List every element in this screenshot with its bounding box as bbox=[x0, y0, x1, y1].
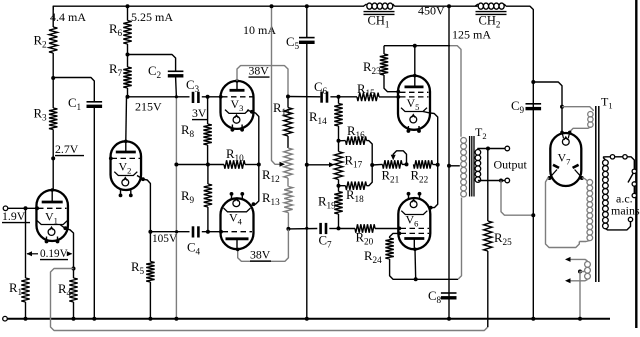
capacitor C4 bbox=[193, 226, 198, 237]
resistor R25 bbox=[484, 149, 492, 328]
node 105V bbox=[148, 230, 152, 234]
label R16 bbox=[347, 124, 365, 140]
svg-text:215V: 215V bbox=[135, 100, 162, 114]
svg-text:0.19V: 0.19V bbox=[40, 248, 68, 260]
wire V7 left anode bbox=[546, 178, 580, 248]
wire cathode link V5-V6 bbox=[429, 165, 438, 210]
wire 450V down bbox=[448, 6, 450, 319]
wire V6 anode line bbox=[415, 198, 462, 280]
wire B+ to V7 bbox=[533, 82, 562, 132]
label V1 bbox=[45, 210, 58, 226]
resistor R6 bbox=[123, 4, 131, 54]
resistor R23 bbox=[380, 46, 399, 92]
wire C2 ground line bbox=[175, 97, 177, 319]
label mains bbox=[611, 204, 640, 218]
tube V3 bbox=[221, 79, 254, 132]
potentiometer R17 bbox=[334, 141, 342, 186]
wire 105V line bbox=[150, 230, 189, 233]
wire R21-R22 line bbox=[372, 163, 382, 166]
label R17 bbox=[345, 154, 363, 170]
svg-text:38V: 38V bbox=[250, 248, 271, 262]
label V2 bbox=[119, 160, 132, 176]
label 450V bbox=[418, 4, 445, 18]
wire 5V winding top bbox=[562, 107, 593, 111]
output terminal top bbox=[505, 146, 510, 151]
node R5 ground bbox=[148, 317, 152, 321]
node V6 anode junction bbox=[414, 277, 418, 281]
label R20 bbox=[356, 231, 374, 247]
label 105V bbox=[152, 233, 178, 245]
capacitor C2 bbox=[128, 55, 184, 97]
resistor R20 bbox=[339, 224, 400, 232]
wire V5 cathode bbox=[423, 112, 438, 165]
node 5V tap bbox=[560, 105, 564, 109]
node 450V rail bbox=[447, 4, 451, 8]
right border bbox=[635, 0, 637, 328]
input terminal bbox=[3, 206, 8, 211]
wire V3 anode 38V bbox=[237, 66, 288, 97]
wire 215V line bbox=[128, 96, 190, 98]
wire V2 anode stem bbox=[125, 97, 128, 142]
wiper R12 bbox=[272, 6, 286, 167]
label V3 bbox=[231, 97, 244, 113]
wire mains top bbox=[604, 157, 611, 160]
label R12 bbox=[262, 168, 280, 184]
label C5 bbox=[286, 35, 300, 51]
label C9 bbox=[511, 99, 525, 115]
capacitor C5 bbox=[299, 4, 315, 319]
label R23 bbox=[363, 60, 381, 76]
wire C3 to V3 grid bbox=[202, 95, 223, 99]
capacitor C7 bbox=[288, 223, 338, 234]
node wiper R12 rail bbox=[270, 4, 274, 8]
label R3 bbox=[34, 107, 48, 123]
resistor R14 bbox=[334, 97, 342, 141]
svg-text:mains: mains bbox=[611, 204, 640, 218]
label Output bbox=[494, 158, 528, 172]
node C5 ground bbox=[305, 317, 309, 321]
label 5.25 mA bbox=[131, 10, 173, 24]
resistor R8 bbox=[203, 97, 211, 165]
label R25 bbox=[494, 231, 512, 247]
label R15 bbox=[357, 82, 375, 98]
label 4.4 mA bbox=[50, 10, 86, 24]
resistor R18 bbox=[339, 165, 373, 190]
label C1 bbox=[68, 96, 82, 112]
wire V5 anode line bbox=[384, 46, 461, 137]
node V5 anode tap bbox=[413, 44, 417, 48]
transformer T2 secondary bbox=[475, 149, 505, 183]
svg-text:3V: 3V bbox=[192, 106, 207, 120]
label R2 bbox=[34, 34, 48, 50]
tube V2 bbox=[109, 140, 141, 198]
resistor R7 bbox=[123, 55, 131, 97]
resistor R13 bbox=[284, 187, 292, 229]
wire ground rail bbox=[8, 318, 611, 320]
node V7 branch bbox=[531, 80, 535, 84]
node C9 ground bbox=[531, 317, 535, 321]
label V5 bbox=[407, 96, 420, 112]
node R10 right bbox=[257, 163, 261, 167]
resistor R2 bbox=[49, 6, 57, 78]
capacitor C3 bbox=[193, 92, 198, 103]
node R2-R3 junction bbox=[51, 76, 55, 80]
wire cathode link V3-V4 bbox=[247, 110, 259, 206]
node R17-R18 junction bbox=[337, 184, 341, 188]
node C8 ground bbox=[447, 317, 451, 321]
ground terminal bbox=[3, 316, 8, 321]
label R5 bbox=[131, 260, 145, 276]
wire V5 anode stem bbox=[413, 46, 417, 87]
label a.c. bbox=[616, 192, 633, 206]
svg-text:125 mA: 125 mA bbox=[452, 28, 491, 42]
wire C9 line bbox=[532, 14, 534, 319]
label CH1 bbox=[368, 14, 390, 30]
wire V2 cathode bbox=[137, 176, 150, 232]
label C2 bbox=[148, 64, 162, 80]
wire switch link bbox=[615, 156, 623, 158]
node T2 centre tap bbox=[447, 164, 460, 168]
wire feedback loop bbox=[51, 269, 488, 331]
svg-text:38V: 38V bbox=[249, 64, 270, 78]
resistor R10 bbox=[224, 160, 259, 168]
resistor R11 bbox=[284, 97, 292, 149]
mains terminal bottom bbox=[628, 217, 632, 221]
label 215V bbox=[135, 100, 162, 114]
label T1 bbox=[601, 95, 613, 111]
node C2 line ground bbox=[174, 317, 178, 321]
resistor R24 bbox=[385, 233, 415, 279]
choke CH2 bbox=[475, 3, 507, 14]
switch contact 1 bbox=[610, 155, 614, 159]
wire heater centre tap bbox=[578, 270, 585, 319]
label R19 bbox=[318, 195, 336, 211]
switch lever bbox=[628, 174, 633, 183]
label C6 bbox=[314, 80, 328, 96]
label R13 bbox=[262, 191, 280, 207]
label R6 bbox=[109, 22, 123, 38]
wire heater bottom tap bbox=[565, 278, 588, 283]
potentiometer R12 bbox=[284, 148, 292, 187]
tube V1 bbox=[35, 188, 68, 243]
node R16-R18 node bbox=[370, 163, 374, 167]
label R24 bbox=[364, 249, 382, 265]
label 3V bbox=[192, 106, 208, 120]
tube V4 bbox=[221, 192, 254, 251]
label 10 mA bbox=[243, 23, 276, 37]
resistor R15 bbox=[330, 93, 398, 101]
label R14 bbox=[309, 110, 327, 126]
wire input to grid bbox=[8, 207, 37, 209]
wire fuse link bbox=[633, 186, 635, 193]
node 2.7V bbox=[51, 156, 55, 160]
label R7 bbox=[109, 62, 123, 78]
tube V7 bbox=[548, 131, 584, 186]
tube V6 bbox=[397, 192, 430, 251]
node C6-R14 junction bbox=[337, 95, 341, 99]
node R21-R22 junction bbox=[405, 162, 409, 166]
wire top B+ rail bbox=[53, 6, 533, 14]
wire R11 feed bbox=[288, 96, 320, 98]
node R8-R9 junction bbox=[206, 163, 210, 167]
node heater tap ground bbox=[578, 317, 582, 321]
node R10 left bbox=[174, 163, 178, 167]
wire switch to fuse bbox=[627, 157, 634, 169]
wire C4 to V4 grid bbox=[202, 230, 223, 234]
wiper R17 bbox=[307, 162, 335, 167]
transformer T1 heater winding bbox=[585, 262, 591, 280]
label R9 bbox=[181, 189, 195, 205]
transformer T1 HV winding bbox=[579, 179, 592, 241]
resistor R16 bbox=[339, 136, 373, 165]
wire V1 anode bbox=[52, 158, 54, 190]
label C4 bbox=[187, 241, 201, 257]
node C5 wiper tap bbox=[305, 163, 309, 167]
transformer T1 mains winding bbox=[603, 160, 609, 229]
node R11 top bbox=[286, 95, 290, 99]
svg-text:1.9V: 1.9V bbox=[2, 209, 26, 223]
node output ground tap bbox=[499, 179, 503, 183]
capacitor C9 bbox=[526, 104, 542, 109]
node C2-215V crossing bbox=[175, 95, 178, 98]
resistor R5 bbox=[146, 232, 154, 319]
node output feedback tap bbox=[486, 147, 490, 151]
label 125 mA bbox=[452, 28, 491, 42]
switch contact 2 bbox=[623, 155, 627, 159]
svg-text:2.7V: 2.7V bbox=[55, 142, 79, 156]
wire output ground bbox=[501, 181, 533, 216]
resistor R19 bbox=[334, 186, 342, 229]
label V4 bbox=[229, 211, 243, 227]
node R19-C7 junction bbox=[337, 226, 341, 230]
node R14-R16 junction bbox=[337, 139, 341, 143]
node C4-R9 junction bbox=[206, 230, 210, 234]
label C8 bbox=[428, 289, 442, 305]
label 38V top bbox=[249, 64, 270, 78]
label R21 bbox=[382, 169, 400, 185]
label 0.19V bbox=[27, 248, 73, 260]
label V6 bbox=[406, 213, 419, 229]
label R8 bbox=[181, 123, 195, 139]
label C7 bbox=[319, 234, 333, 250]
node V5 cathode junction bbox=[436, 163, 440, 167]
choke CH1 bbox=[364, 3, 395, 14]
node R1 ground bbox=[24, 317, 28, 321]
node C1 ground bbox=[92, 317, 96, 321]
output terminal bottom bbox=[505, 178, 510, 183]
resistor R4 bbox=[69, 269, 77, 319]
label CH2 bbox=[479, 14, 501, 30]
label R22 bbox=[411, 169, 429, 185]
node R4 ground bbox=[72, 317, 76, 321]
svg-text:4.4 mA: 4.4 mA bbox=[50, 10, 86, 24]
label 38V bottom bbox=[250, 248, 271, 262]
label C3 bbox=[186, 78, 200, 94]
capacitor C8 bbox=[441, 293, 457, 298]
wire heater top tap bbox=[565, 257, 588, 262]
node C3-R8 junction bbox=[206, 95, 210, 99]
tube V5 bbox=[396, 76, 430, 133]
wire V4 anode 38V bbox=[238, 229, 289, 261]
svg-text:450V: 450V bbox=[418, 4, 445, 18]
node input-R1 bbox=[24, 206, 28, 210]
node V1 cathode junction bbox=[72, 267, 76, 271]
wire 5V winding bottom bbox=[570, 127, 591, 132]
label R4 bbox=[58, 282, 72, 298]
resistor R1 bbox=[21, 208, 29, 318]
node V2 anode 215V bbox=[126, 95, 130, 99]
wire V7 right anode bbox=[582, 178, 587, 181]
transformer T1 5V winding bbox=[588, 112, 593, 128]
resistor R3 bbox=[49, 78, 57, 158]
switch contact 4 bbox=[632, 182, 636, 186]
node R6-R7 junction bbox=[126, 53, 130, 57]
svg-text:105V: 105V bbox=[152, 233, 178, 245]
resistor R22 bbox=[414, 160, 438, 168]
svg-text:5.25 mA: 5.25 mA bbox=[131, 10, 173, 24]
transformer T2 primary bbox=[461, 138, 467, 197]
label 2.7V bbox=[55, 142, 84, 156]
switch contact 3 bbox=[632, 169, 636, 173]
label R11 bbox=[273, 101, 291, 117]
transformer T1 core bbox=[596, 106, 599, 282]
wire R10 line bbox=[176, 164, 224, 166]
node output ground join bbox=[531, 213, 535, 217]
label T2 bbox=[475, 125, 487, 141]
label R1 bbox=[9, 281, 23, 297]
transformer T2 core bbox=[470, 136, 474, 197]
label R10 bbox=[226, 147, 244, 163]
wire V1 cathode bbox=[60, 225, 74, 269]
label R18 bbox=[346, 188, 364, 204]
wire mains bottom bbox=[605, 222, 630, 230]
resistor R9 bbox=[204, 165, 212, 232]
wiper R21 bbox=[391, 151, 407, 165]
svg-text:Output: Output bbox=[494, 158, 528, 172]
capacitor C6 bbox=[322, 92, 327, 103]
node R13-C7 junction bbox=[286, 227, 290, 231]
capacitor C1 bbox=[53, 78, 102, 319]
label V7 bbox=[558, 151, 571, 167]
node C5-C7line crossing bbox=[305, 227, 308, 230]
label 1.9V bbox=[2, 209, 30, 223]
potentiometer R21 bbox=[383, 160, 407, 168]
mains terminal top bbox=[632, 193, 636, 197]
